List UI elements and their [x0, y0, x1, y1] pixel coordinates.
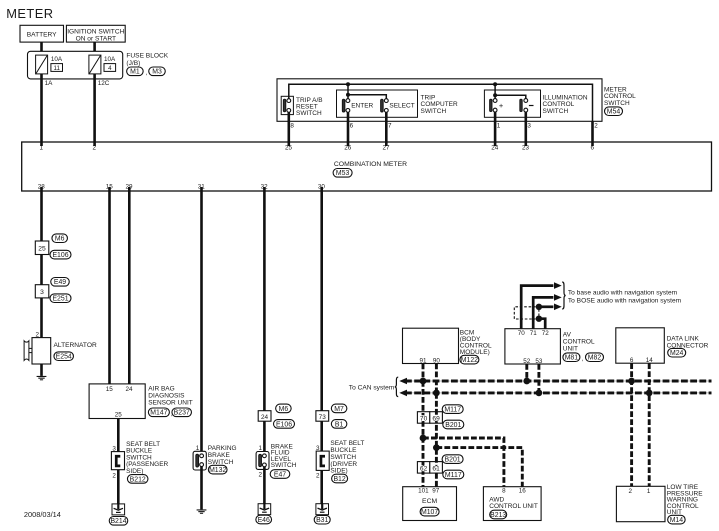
connector M132	[208, 465, 227, 474]
connector B201 ecm	[442, 455, 463, 464]
svg-text:2: 2	[112, 472, 116, 479]
svg-text:24: 24	[125, 386, 133, 393]
connector E47	[270, 470, 290, 479]
svg-text:ALTERNATOR: ALTERNATOR	[54, 342, 97, 349]
meter control switch M54 outer box	[277, 79, 602, 122]
shield dashed box	[514, 307, 535, 319]
connector B201	[443, 420, 464, 429]
svg-text:10A: 10A	[104, 56, 116, 63]
connector M82	[586, 353, 604, 362]
svg-text:SWITCH: SWITCH	[543, 108, 569, 115]
svg-text:69: 69	[432, 416, 440, 423]
parking brake switch symbol	[193, 451, 206, 470]
connector junction 25 box	[35, 241, 49, 255]
connector E46	[256, 515, 272, 524]
wire to alternator pin 2	[40, 298, 43, 338]
connector M147	[148, 408, 169, 417]
svg-text:B213: B213	[490, 512, 506, 519]
svg-text:8: 8	[502, 487, 506, 494]
svg-text:15: 15	[106, 386, 114, 393]
svg-text:53: 53	[535, 358, 543, 365]
junction dot CAN-H BCM	[420, 378, 427, 385]
wire to junction 3	[40, 255, 43, 287]
chassis ground parking brake	[197, 509, 207, 510]
junction dot bus illumination	[493, 82, 497, 86]
svg-text:24: 24	[261, 414, 269, 421]
connector junction 70 box	[417, 412, 429, 424]
connector M122	[460, 355, 479, 364]
wire AV pin 72 to shield	[539, 319, 545, 329]
junction dot CAN-H AV	[523, 378, 530, 385]
illumination + switch symbol	[490, 99, 492, 111]
svg-text:M3: M3	[152, 69, 162, 76]
connector M7	[331, 404, 347, 413]
ECM box	[403, 487, 457, 521]
bus wire in switch box	[289, 84, 593, 121]
ignition switch box	[66, 25, 125, 42]
connector M117	[442, 405, 463, 414]
svg-text:101: 101	[418, 487, 429, 494]
svg-text:B1: B1	[335, 421, 344, 428]
svg-text:UNIT: UNIT	[563, 346, 578, 353]
wire AV pin 53 to CAN-L	[537, 364, 540, 393]
wire meter pin 30 down	[320, 187, 323, 412]
connector M81	[563, 353, 580, 362]
svg-text:10A: 10A	[51, 56, 63, 63]
connector B213	[490, 510, 507, 519]
svg-text:B201: B201	[445, 457, 461, 464]
connector junction 3 box	[35, 285, 49, 298]
trip computer switch sub-box	[337, 90, 418, 117]
svg-text:SWITCH: SWITCH	[271, 462, 297, 469]
connector M14	[668, 515, 686, 524]
svg-text:To base audio with navigation: To base audio with navigation system	[568, 289, 678, 296]
svg-text:DATA LINK: DATA LINK	[667, 335, 700, 342]
svg-text:CONTROL: CONTROL	[563, 339, 595, 346]
svg-text:M117: M117	[444, 407, 461, 414]
alternator brush symbol	[24, 341, 29, 361]
connector junction 61 box	[430, 462, 443, 474]
wire ignition to fuse block	[93, 42, 96, 56]
svg-text:70: 70	[420, 416, 428, 423]
connector E106	[50, 250, 71, 259]
svg-text:M107: M107	[421, 509, 438, 516]
connector M6	[52, 234, 67, 243]
svg-text:E47: E47	[274, 471, 286, 478]
pin 1 wire illum+ to meter pin 24	[494, 112, 497, 146]
svg-text:52: 52	[523, 358, 531, 365]
svg-text:25: 25	[38, 246, 46, 253]
svg-text:AV: AV	[563, 332, 572, 339]
svg-text:2: 2	[628, 488, 632, 495]
wire AV pin 52 to CAN-H	[525, 364, 528, 381]
svg-text:COMBINATION METER: COMBINATION METER	[334, 161, 407, 168]
svg-text:M122: M122	[461, 357, 478, 364]
svg-text:CONTROL UNIT: CONTROL UNIT	[489, 503, 538, 510]
svg-text:E254: E254	[56, 354, 72, 361]
wire branch to AWD pin 8	[423, 438, 504, 487]
svg-text:B201: B201	[445, 422, 461, 429]
svg-text:SENSOR UNIT: SENSOR UNIT	[148, 399, 192, 406]
svg-text:ECM: ECM	[422, 498, 437, 505]
svg-text:To CAN system: To CAN system	[349, 384, 395, 391]
svg-text:3: 3	[527, 123, 531, 130]
svg-text:70: 70	[518, 330, 526, 337]
svg-text:M81: M81	[565, 355, 579, 362]
wire bus drop to trip computer switch	[347, 84, 349, 95]
svg-text:25: 25	[115, 412, 123, 419]
connector M53	[333, 169, 352, 178]
SELECT switch symbol	[381, 99, 384, 112]
wire to seat belt driver switch	[320, 421, 323, 451]
svg-text:2008/03/14: 2008/03/14	[24, 510, 61, 519]
ground box B214	[112, 504, 125, 515]
ground box B31	[316, 504, 329, 515]
wire audio arrow 3	[539, 305, 554, 308]
connector B237	[172, 408, 192, 417]
junction dot CAN-L DLC	[646, 390, 653, 397]
svg-text:M147: M147	[150, 410, 167, 417]
junction dot audio shield bottom	[536, 316, 542, 322]
svg-text:73: 73	[319, 414, 327, 421]
svg-text:SEAT BELT: SEAT BELT	[330, 440, 364, 447]
svg-text:M14: M14	[670, 517, 684, 524]
svg-text:1: 1	[647, 488, 651, 495]
connector B31	[314, 515, 330, 524]
svg-text:FUSE BLOCK: FUSE BLOCK	[126, 52, 168, 59]
svg-text:M6: M6	[55, 236, 65, 243]
ENTER switch symbol	[342, 99, 345, 112]
connector M6 brake	[276, 404, 292, 413]
svg-text:8: 8	[290, 123, 294, 130]
svg-text:1: 1	[497, 123, 501, 130]
connector M117 ecm	[443, 470, 464, 479]
junction dot CAN-H DLC	[628, 378, 635, 385]
brace CAN system	[395, 377, 398, 397]
wire CAN-L to ECM pin 97	[435, 393, 438, 487]
svg-text:7: 7	[388, 123, 392, 130]
svg-text:2: 2	[258, 472, 262, 479]
svg-text:SWITCH: SWITCH	[604, 100, 630, 107]
svg-text:M24: M24	[670, 350, 684, 357]
wire meter pin 29 down	[128, 187, 131, 384]
seat belt buckle switch driver box	[316, 451, 329, 470]
alternator box	[32, 338, 51, 364]
svg-text:+: +	[499, 101, 504, 110]
svg-text:(DRIVER: (DRIVER	[330, 461, 357, 468]
svg-text:3: 3	[40, 289, 44, 296]
svg-text:IGNITION SWITCH: IGNITION SWITCH	[67, 28, 124, 35]
brake fluid level switch symbol	[256, 452, 269, 470]
fuse 10A #11	[36, 55, 48, 74]
illumination control switch sub-box	[484, 90, 540, 117]
seat belt buckle switch passenger box	[111, 452, 124, 470]
svg-text:97: 97	[432, 487, 440, 494]
data link connector box	[616, 328, 665, 363]
svg-text:1A: 1A	[45, 80, 54, 87]
svg-text:E49: E49	[54, 279, 66, 286]
pin 7 wire select to meter pin 27	[385, 112, 388, 146]
svg-text:,: ,	[146, 70, 148, 77]
connector junction 62 box	[417, 462, 429, 474]
AV control unit box	[505, 329, 561, 364]
connector junction 69 box	[430, 412, 443, 424]
svg-text:M54: M54	[607, 109, 621, 116]
pin 3 wire illum- to meter pin 23	[524, 112, 527, 146]
wire BCM pin 91 to CAN-H	[422, 364, 425, 382]
svg-text:B237: B237	[174, 410, 190, 417]
fuse block J/B box	[28, 51, 123, 79]
wire parking brake to ground	[200, 467, 203, 510]
wire battery to fuse block	[40, 42, 43, 56]
svg-text:B212: B212	[130, 476, 146, 483]
svg-text:B214: B214	[110, 518, 126, 525]
svg-text:71: 71	[530, 330, 538, 337]
chassis ground alternator	[37, 376, 47, 377]
svg-text:SWITCH: SWITCH	[296, 110, 322, 117]
svg-text:SWITCH: SWITCH	[330, 454, 356, 461]
svg-text:E251: E251	[52, 296, 68, 303]
connector junction 73 box	[316, 411, 329, 422]
AWD control unit box	[483, 487, 541, 521]
wire to brake fluid switch	[263, 421, 266, 453]
wire enter-select link	[348, 95, 386, 99]
svg-text:62: 62	[420, 466, 428, 473]
wire BCM pin 90 to CAN-L	[435, 364, 438, 393]
svg-text:BUCKLE: BUCKLE	[330, 447, 357, 454]
connector M54	[605, 107, 623, 116]
connector B214	[109, 517, 128, 526]
shield dashed link	[538, 310, 540, 316]
wire AV pin 71 to audio arrow	[533, 297, 553, 328]
svg-text:B31: B31	[316, 517, 328, 524]
svg-text:SWITCH: SWITCH	[421, 108, 447, 115]
svg-text:BRAKE: BRAKE	[208, 452, 231, 459]
wire bus drop to illumination switch	[494, 84, 496, 95]
wire meter pin 32 down	[263, 187, 266, 412]
CAN-H bus wire	[404, 380, 712, 382]
svg-text:M82: M82	[588, 355, 602, 362]
svg-text:M7: M7	[334, 406, 344, 413]
svg-text:M1: M1	[130, 69, 140, 76]
svg-text:M117: M117	[445, 472, 462, 479]
BCM body control module box	[403, 328, 459, 363]
svg-text:DIAGNOSIS: DIAGNOSIS	[148, 392, 185, 399]
pin 6 wire enter to meter pin 26	[347, 112, 350, 146]
connector E254	[54, 352, 73, 361]
svg-text:To BOSE audio with navigation: To BOSE audio with navigation system	[568, 297, 682, 304]
svg-text:E106: E106	[52, 252, 68, 259]
svg-text:M53: M53	[336, 170, 350, 177]
connector M107	[420, 507, 439, 516]
wire 1A to combination meter pin 1	[40, 74, 43, 146]
junction dot ECM branch L	[433, 444, 440, 451]
combination meter M53 box	[22, 142, 712, 191]
svg-text:,: ,	[582, 355, 584, 362]
wire meter pin 31 down	[200, 187, 203, 453]
svg-text:M6: M6	[279, 406, 289, 413]
trip A/B reset switch symbol	[283, 99, 286, 112]
svg-text:E46: E46	[258, 517, 270, 524]
wire meter pin 15 down	[108, 187, 111, 384]
svg-text:91: 91	[419, 357, 427, 364]
wire alternator to ground	[40, 364, 43, 376]
svg-text:14: 14	[646, 357, 654, 364]
pin 8 wire trip reset to meter pin 25	[287, 112, 290, 146]
connector M3	[149, 67, 166, 76]
junction dot illumination +/-	[493, 93, 497, 97]
trip A/B reset switch box	[281, 96, 293, 114]
svg-text:11: 11	[53, 65, 60, 72]
svg-text:PARKING: PARKING	[208, 445, 237, 452]
svg-text:2: 2	[316, 472, 320, 479]
wire DLC pin 6 to CAN-H and low tire unit	[630, 363, 633, 486]
svg-text:B12: B12	[333, 476, 345, 483]
wire seat belt driver to ground B31	[320, 470, 323, 503]
junction dot enter/select	[346, 93, 350, 97]
svg-text:SELECT: SELECT	[389, 102, 414, 109]
svg-text:AIR BAG: AIR BAG	[148, 385, 174, 392]
svg-text:61: 61	[432, 466, 440, 473]
CAN-L bus wire	[404, 392, 712, 394]
svg-text:SIDE): SIDE)	[126, 468, 143, 475]
svg-text:E106: E106	[276, 421, 292, 428]
svg-text:BATTERY: BATTERY	[27, 31, 57, 38]
junction dot bus trip computer	[346, 82, 350, 86]
wire branch to AWD pin 16	[436, 448, 522, 487]
connector E251	[50, 294, 71, 303]
brace audio	[562, 282, 565, 309]
ground box E46	[258, 504, 271, 515]
connector M1	[127, 67, 143, 76]
junction dot ECM branch H	[420, 435, 427, 442]
svg-text:4: 4	[108, 65, 112, 72]
svg-text:ON or START: ON or START	[76, 35, 116, 42]
connector B12	[332, 474, 348, 483]
connector B1	[331, 420, 347, 429]
wire plus-minus link	[495, 95, 526, 98]
battery B1 box	[20, 25, 64, 42]
svg-text:2: 2	[594, 123, 598, 130]
junction dot CAN-L AV	[536, 390, 543, 397]
svg-text:6: 6	[630, 357, 634, 364]
svg-text:72: 72	[542, 330, 550, 337]
svg-text:ENTER: ENTER	[351, 102, 373, 109]
connector B212	[127, 475, 148, 484]
wire AV pin 70 to base audio arrow	[521, 286, 553, 329]
wire airbag pin 25 to seat belt switch	[117, 419, 120, 452]
connector E49	[51, 278, 70, 287]
wire CAN-H to ECM pin 101	[422, 381, 425, 487]
air bag diagnosis sensor unit box	[89, 384, 145, 419]
svg-text:16: 16	[519, 487, 527, 494]
junction dot audio shield top	[536, 304, 542, 310]
low tire pressure warning control unit box	[616, 486, 665, 521]
junction dot CAN-L BCM	[433, 390, 440, 397]
svg-text:90: 90	[433, 357, 441, 364]
svg-text:METER: METER	[6, 6, 53, 21]
fuse 10A #4	[89, 55, 101, 74]
svg-text:6: 6	[350, 123, 354, 130]
wire 12C to combination meter pin 2	[93, 74, 96, 146]
svg-text:12C: 12C	[98, 80, 110, 87]
connector junction 24 box	[258, 411, 271, 422]
illumination - switch symbol	[520, 99, 522, 111]
svg-text:M132: M132	[209, 467, 226, 474]
wire brake fluid to ground E46	[263, 467, 266, 504]
connector E106 brake	[274, 420, 295, 429]
connector M24	[668, 348, 686, 357]
wire pin 2 stub	[591, 121, 594, 146]
wire DLC pin 14 to CAN-L and low tire unit	[648, 363, 651, 486]
wire meter pin 28 down	[40, 187, 43, 243]
wire seat belt passenger to ground B214	[117, 470, 120, 504]
svg-text:(J/B): (J/B)	[126, 60, 140, 67]
